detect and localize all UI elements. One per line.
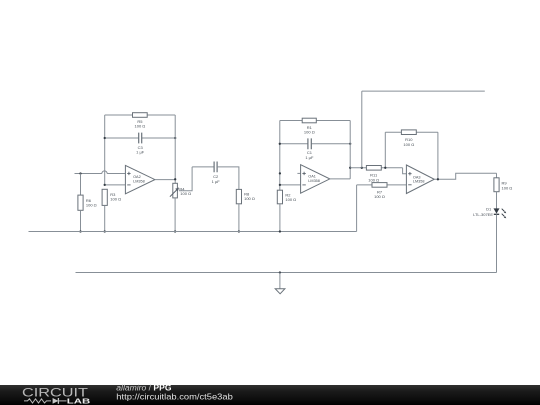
node: junction dot R4 bottom rail xyxy=(174,230,176,232)
wire hop arc at crossing xyxy=(102,171,107,174)
ground xyxy=(275,289,285,294)
resistor R6 xyxy=(78,195,83,210)
wire: R7 line to OA3 inverting input xyxy=(357,184,407,186)
potentiometer R4 xyxy=(173,183,178,198)
wire: R4 bottom lead xyxy=(174,198,176,232)
wire: stage1 feedback top xyxy=(105,114,176,116)
node: junction dot OA1 inverting xyxy=(279,184,281,186)
LED D1 xyxy=(494,208,500,213)
wire: OA1 noninverting stub xyxy=(297,172,300,174)
capacitor C2 xyxy=(214,162,217,173)
node: junction dot OA2 output xyxy=(174,178,176,180)
node A: junction dot input/R6 xyxy=(79,172,81,174)
wire: R7 drop to bias rail xyxy=(356,185,358,232)
node: junction dot C3 right xyxy=(174,137,176,139)
wire: vertical to top rail xyxy=(361,91,363,168)
node: junction dot R3 rail xyxy=(104,230,106,232)
wire: jog into OA3 noninverting input xyxy=(403,168,407,174)
wire: C2 right lead to R8 xyxy=(217,167,239,190)
wire: stage2 feedback loop left vertical xyxy=(279,121,281,191)
node: junction dot ground rail xyxy=(279,271,281,273)
node: junction dot R8 rail xyxy=(238,230,240,232)
wire: OA1 output xyxy=(330,178,350,180)
wire: LED cathode down xyxy=(496,214,498,272)
wire: ground rail xyxy=(76,272,497,274)
node: junction dot stage3 feedback left xyxy=(384,167,386,169)
resistor R7 xyxy=(372,183,387,188)
node: junction dot interstage xyxy=(349,167,351,169)
svg-text:LAB: LAB xyxy=(67,398,91,405)
resistor R9 xyxy=(494,178,499,192)
wire: stage3 feedback top xyxy=(385,131,438,133)
wire: R4 wiper to C2 xyxy=(179,167,192,191)
wire: stage2 feedback right vertical xyxy=(349,121,351,179)
wire: stage1 feedback right vertical down to output xyxy=(174,115,176,183)
wire: C2 left lead xyxy=(192,166,214,168)
resistor R5 xyxy=(133,113,148,118)
wire: R6 top lead xyxy=(80,174,82,196)
wire: OA3 output to R9 xyxy=(434,173,496,179)
node: junction dot C1 left xyxy=(279,143,281,145)
wire: stage1 feedback loop left vertical xyxy=(104,115,106,185)
node: junction dot OA3 output xyxy=(437,178,439,180)
node: junction dot R6 rail xyxy=(79,230,81,232)
wire: stage3 feedback right vertical xyxy=(437,132,439,179)
op-amp OA3 xyxy=(406,165,434,194)
svg-text:allamiro / PPG: allamiro / PPG xyxy=(116,383,171,392)
wire: stage2 feedback top xyxy=(280,120,350,122)
node: junction dot top branch xyxy=(361,167,363,169)
op-amp OA2 xyxy=(125,165,154,193)
resistor R1 xyxy=(302,118,316,123)
node: junction dot C1 right xyxy=(349,143,351,145)
wire: ground stub xyxy=(279,273,281,289)
logo diode xyxy=(53,398,59,404)
capacitor C3 xyxy=(139,133,142,144)
wire: R2 bottom lead xyxy=(279,204,281,232)
logo resistor zigzag xyxy=(24,399,51,403)
node: junction dot R2 rail xyxy=(279,230,281,232)
wire: stage2 C1 branch xyxy=(280,143,350,145)
wire: OA2 inverting input xyxy=(105,184,126,186)
footer bar xyxy=(0,385,540,405)
node: junction dot C3 left xyxy=(104,137,106,139)
wire: R3 bottom lead xyxy=(104,205,106,231)
wire: bias rail (horizontal) xyxy=(29,231,357,233)
wire: top dead-end rail xyxy=(362,90,485,92)
wire: input signal to OA2 noninverting input (with hop over vertical) xyxy=(75,173,126,175)
wire: stage3 feedback left vertical xyxy=(384,132,386,168)
resistor R10 xyxy=(401,130,416,135)
wire: stage1 C3 branch xyxy=(105,137,176,139)
capacitor C1 xyxy=(308,138,311,149)
wire: R9 top lead xyxy=(496,173,498,178)
wire: OA1 inverting input xyxy=(280,184,301,186)
resistor R8 xyxy=(236,189,241,203)
svg-text:http://circuitlab.com/ct5e3ab: http://circuitlab.com/ct5e3ab xyxy=(116,393,233,402)
resistor R3 xyxy=(102,189,107,205)
wire: R6 bottom lead xyxy=(80,210,82,231)
node: lone junction dot on stage2 left vertical xyxy=(279,172,281,174)
wire: interstage link to R11 and OA3 xyxy=(350,167,402,169)
op-amp OA1 xyxy=(301,165,330,194)
wire: R9 bottom lead xyxy=(496,192,498,209)
node: junction dot OA2 inverting xyxy=(104,184,106,186)
resistor R2 xyxy=(277,190,282,204)
resistor R11 xyxy=(366,166,381,171)
wire: R8 bottom lead xyxy=(238,204,240,232)
wire: OA2 output xyxy=(155,179,175,181)
